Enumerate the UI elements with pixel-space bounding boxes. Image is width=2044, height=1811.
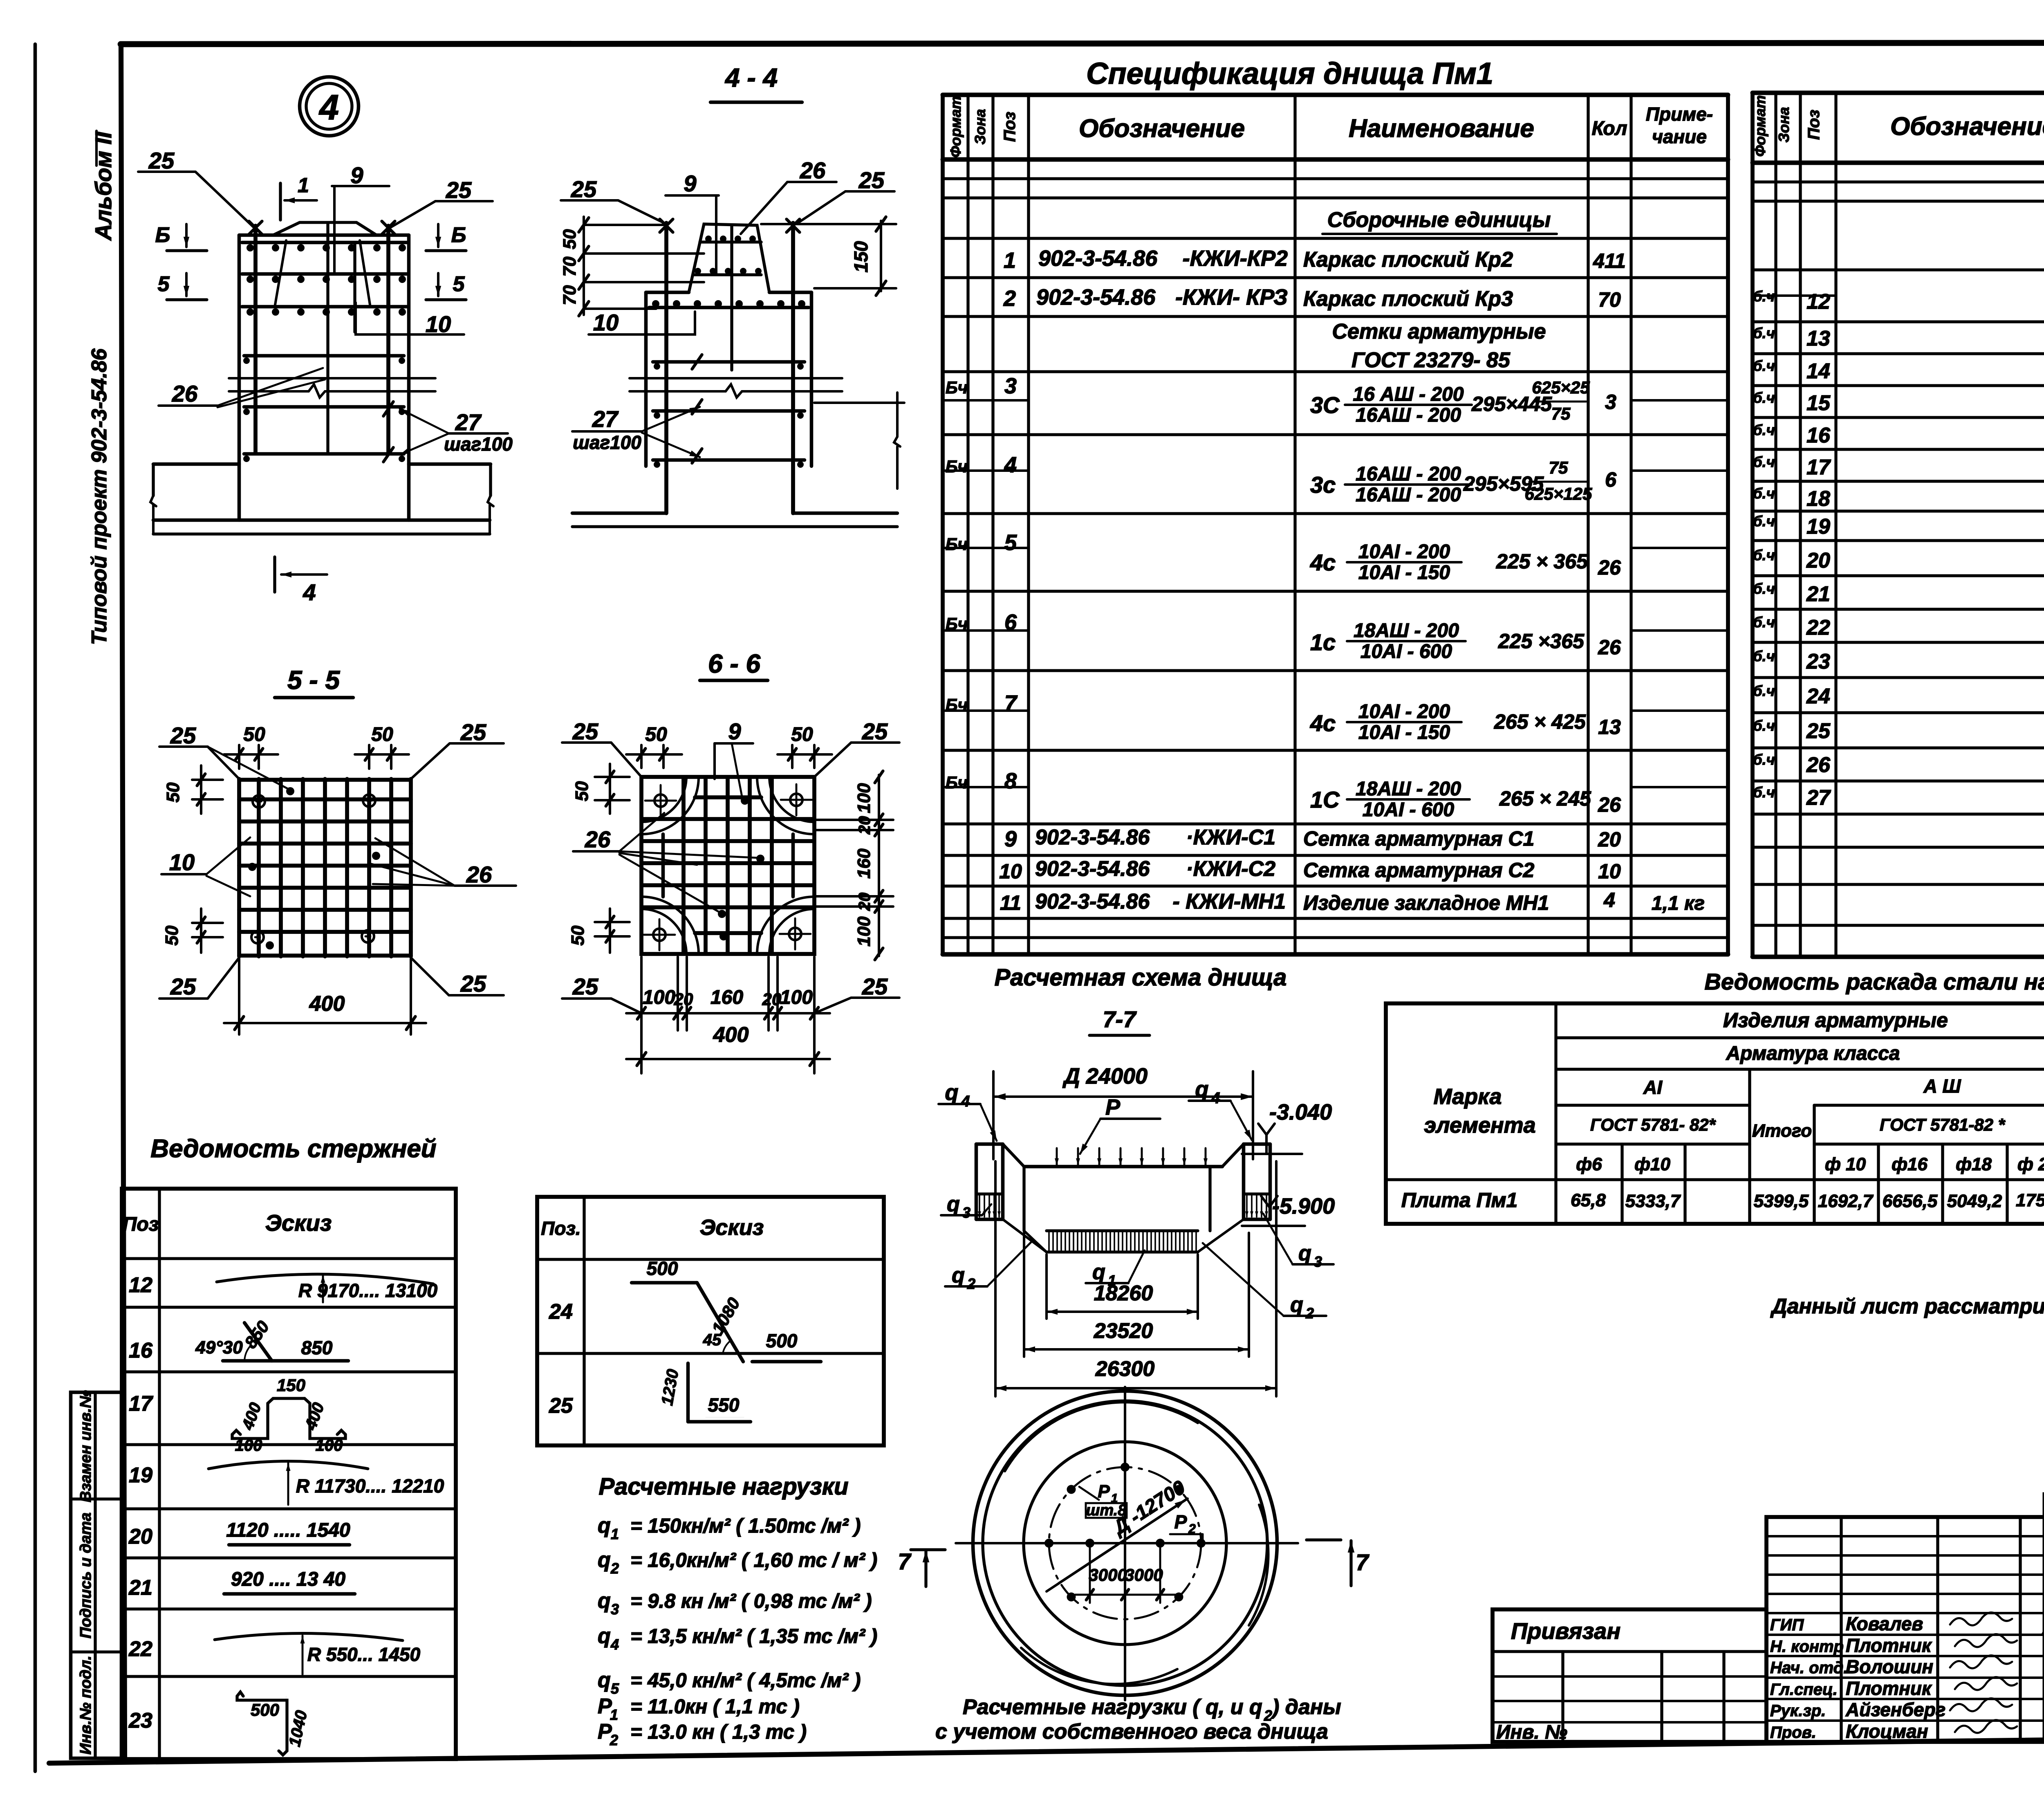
circular plan: outer circle — [973, 1391, 1277, 1695]
svg-text:Взамен инв.№: Взамен инв.№ — [77, 1390, 94, 1502]
svg-text:б.ч: б.ч — [1753, 513, 1775, 530]
svg-text:ГОСТ 5781- 82*: ГОСТ 5781- 82* — [1590, 1115, 1716, 1134]
svg-text:ф18: ф18 — [1956, 1154, 1992, 1174]
svg-text:25: 25 — [858, 167, 885, 193]
svg-text:25: 25 — [1806, 719, 1831, 743]
svg-text:65,8: 65,8 — [1571, 1190, 1606, 1210]
svg-text:24: 24 — [549, 1300, 573, 1324]
svg-text:Данный лист рассматривать сов: Данный лист рассматривать совместно с ли… — [1770, 1295, 2044, 1318]
svg-text:5: 5 — [453, 272, 465, 296]
svg-text:8: 8 — [1004, 769, 1017, 793]
svg-text:12: 12 — [1806, 290, 1830, 314]
svg-text:Приме-: Приме- — [1646, 103, 1713, 125]
svg-text:Альбом II: Альбом II — [90, 131, 116, 241]
grid 6-6: inner short verticals — [661, 834, 665, 897]
svg-text:Кол: Кол — [1592, 118, 1627, 139]
svg-text:22: 22 — [1806, 616, 1830, 640]
svg-text:50: 50 — [162, 925, 182, 945]
svg-text:20: 20 — [856, 893, 874, 911]
svg-text:Сетка арматурная С1: Сетка арматурная С1 — [1303, 827, 1534, 850]
svg-text:20: 20 — [674, 990, 693, 1009]
svg-text:Эскиз: Эскиз — [265, 1210, 332, 1236]
svg-text:5: 5 — [1004, 530, 1017, 555]
grid 5-5: corner circles — [253, 795, 265, 808]
svg-text:R 550... 1450: R 550... 1450 — [307, 1644, 421, 1665]
svg-text:6 - 6: 6 - 6 — [708, 649, 760, 678]
svg-text:Инв. №: Инв. № — [1496, 1721, 1567, 1743]
svg-text:7-7: 7-7 — [1103, 1006, 1137, 1032]
svg-text:26: 26 — [1598, 793, 1621, 816]
svg-text:25: 25 — [460, 971, 486, 996]
circular plan: second circle — [983, 1401, 1267, 1685]
schema 7-7: load P arrows — [1056, 1148, 1058, 1165]
svg-text:4: 4 — [1211, 1090, 1220, 1107]
svg-text:50: 50 — [560, 229, 580, 249]
svg-text:10АI - 600: 10АI - 600 — [1363, 799, 1454, 821]
svg-text:Плита Пм1: Плита Пм1 — [1401, 1189, 1518, 1212]
spec table right: sub-row line — [1753, 294, 1836, 297]
svg-text:150: 150 — [850, 241, 872, 272]
sheet frame: main border top line — [121, 43, 2044, 44]
svg-text:б.ч: б.ч — [1753, 614, 1775, 631]
svg-text:4 - 4: 4 - 4 — [724, 63, 778, 92]
section 4: vertical bar 25 right — [386, 226, 390, 453]
rod table: frame — [122, 1189, 456, 1759]
svg-text:Ведомость стержней: Ведомость стержней — [150, 1135, 436, 1163]
svg-text:б.ч: б.ч — [1753, 325, 1775, 341]
svg-text:25: 25 — [862, 974, 888, 999]
svg-text:18260: 18260 — [1094, 1281, 1153, 1305]
svg-text:26: 26 — [172, 381, 198, 406]
svg-text:q: q — [947, 1192, 960, 1216]
svg-text:3с: 3с — [1310, 472, 1336, 498]
svg-text:= 13,5 кн/м² ( 1,35 тс /м² ): = 13,5 кн/м² ( 1,35 тс /м² ) — [630, 1625, 877, 1647]
svg-text:Типовой проект 902-3-54.86: Типовой проект 902-3-54.86 — [87, 348, 111, 645]
circular plan: bolt circle dash-dot — [1049, 1467, 1201, 1619]
svg-text:Клоцман: Клоцман — [1846, 1721, 1928, 1742]
section 4: lower bar 1 — [244, 354, 404, 358]
svg-text:б.ч: б.ч — [1753, 717, 1775, 734]
svg-text:4: 4 — [961, 1093, 970, 1110]
section 4: bottom section mark 4 — [273, 557, 276, 592]
svg-text:Бч: Бч — [946, 378, 968, 397]
svg-text:9: 9 — [350, 162, 363, 188]
svg-text:1: 1 — [611, 1526, 619, 1542]
svg-text:Бч: Бч — [946, 773, 968, 792]
svg-text:7: 7 — [898, 1548, 912, 1574]
svg-text:9: 9 — [728, 718, 741, 744]
svg-text:Сетки арматурные: Сетки арматурные — [1332, 320, 1546, 343]
section 4: lower bar 2 — [244, 405, 404, 409]
svg-text:б.ч: б.ч — [1753, 547, 1775, 563]
svg-text:75: 75 — [1551, 404, 1571, 423]
svg-text:2: 2 — [967, 1275, 975, 1292]
svg-text:5049,2: 5049,2 — [1947, 1191, 2002, 1211]
section 4: top curb trapezoid — [273, 222, 377, 235]
svg-text:q: q — [598, 1624, 611, 1648]
schema 7-7: q3 hatch boxes — [979, 1196, 980, 1217]
spec table left: sub-row lines in narrow columns — [943, 399, 1029, 402]
svg-text:Д 24000: Д 24000 — [1062, 1064, 1148, 1088]
svg-text:Подпись и дата: Подпись и дата — [77, 1513, 94, 1638]
svg-text:3: 3 — [1314, 1253, 1322, 1270]
svg-text:q: q — [1092, 1260, 1105, 1284]
svg-text:4: 4 — [303, 579, 316, 605]
svg-text:27: 27 — [592, 406, 619, 432]
svg-text:·КЖИ-С2: ·КЖИ-С2 — [1186, 857, 1275, 881]
svg-text:Ковалев: Ковалев — [1846, 1613, 1923, 1634]
svg-text:6: 6 — [1004, 610, 1017, 635]
svg-text:Бч: Бч — [946, 614, 968, 633]
svg-text:16АШ - 200: 16АШ - 200 — [1356, 484, 1461, 506]
svg-text:10: 10 — [169, 849, 195, 875]
svg-text:3: 3 — [611, 1601, 619, 1618]
section 4: lower bar 3 — [244, 452, 404, 456]
svg-text:ф 20: ф 20 — [2017, 1154, 2044, 1174]
svg-text:Зона: Зона — [972, 109, 988, 145]
svg-text:Обозначение: Обозначение — [1079, 114, 1245, 143]
spec table right: horizontal lines — [1753, 91, 2044, 95]
svg-text:q: q — [1298, 1241, 1311, 1265]
svg-text:Изделие закладное МН1: Изделие закладное МН1 — [1303, 891, 1549, 914]
svg-text:21: 21 — [1806, 582, 1830, 606]
svg-text:Бч: Бч — [946, 457, 968, 476]
svg-text:5 - 5: 5 - 5 — [287, 665, 340, 695]
svg-text:Плотник: Плотник — [1846, 1635, 1932, 1656]
svg-text:Расчетные нагрузки: Расчетные нагрузки — [598, 1473, 848, 1500]
svg-text:2: 2 — [610, 1732, 618, 1748]
svg-text:Эскиз: Эскиз — [700, 1215, 764, 1240]
grid 5-5: mesh bars — [237, 779, 241, 956]
svg-text:550: 550 — [708, 1394, 740, 1416]
svg-text:7: 7 — [1356, 1549, 1369, 1575]
grid 6-6: outer square — [641, 777, 814, 954]
section 4-4: break lines — [630, 377, 842, 379]
svg-text:22: 22 — [128, 1637, 152, 1661]
svg-text:902-3-54.86: 902-3-54.86 — [1036, 285, 1156, 310]
svg-text:27: 27 — [1806, 786, 1831, 810]
svg-text:ф6: ф6 — [1576, 1154, 1602, 1174]
svg-text:3: 3 — [1605, 390, 1616, 413]
circular plan: center lines — [956, 1542, 1298, 1544]
svg-text:4: 4 — [610, 1636, 619, 1653]
svg-text:Бч: Бч — [946, 534, 968, 554]
grid 6-6: vertical bars — [681, 779, 686, 952]
svg-text:P: P — [1098, 1481, 1110, 1501]
svg-text:Поз: Поз — [1805, 110, 1823, 140]
svg-text:26: 26 — [1598, 636, 1621, 659]
svg-text:10АI - 150: 10АI - 150 — [1358, 562, 1450, 583]
sheet frame: main border bottom line — [49, 1734, 2044, 1763]
svg-text:-3.040: -3.040 — [1269, 1100, 1332, 1124]
svg-text:= 9.8 кн /м² ( 0,98 тс /м²: = 9.8 кн /м² ( 0,98 тс /м² ) — [630, 1590, 872, 1612]
svg-text:19: 19 — [1806, 515, 1830, 539]
svg-text:20: 20 — [762, 990, 782, 1009]
svg-text:q: q — [1195, 1077, 1209, 1102]
svg-text:ф16: ф16 — [1892, 1154, 1927, 1174]
steel table: horizontal lines — [1556, 1036, 2044, 1039]
svg-text:б.ч: б.ч — [1753, 751, 1775, 768]
svg-text:Формат: Формат — [947, 96, 964, 157]
svg-text:Поз: Поз — [123, 1214, 159, 1235]
svg-text:49°30: 49°30 — [195, 1337, 243, 1358]
svg-text:17: 17 — [129, 1392, 153, 1416]
svg-text:100: 100 — [854, 916, 874, 947]
section 4: break lines — [229, 377, 435, 379]
svg-text:400: 400 — [713, 1023, 749, 1047]
svg-text:17: 17 — [1806, 456, 1831, 479]
section 4-4: rebar row with dots — [649, 306, 809, 310]
svg-text:50: 50 — [645, 724, 667, 745]
svg-text:25: 25 — [460, 719, 486, 745]
svg-text:50: 50 — [791, 724, 813, 745]
svg-text:с учетом собственного веса: с учетом собственного веса днища — [935, 1720, 1328, 1744]
svg-text:50: 50 — [371, 724, 393, 745]
svg-text:500: 500 — [251, 1700, 279, 1719]
svg-text:Рук.зр.: Рук.зр. — [1770, 1702, 1826, 1720]
svg-text:2: 2 — [1305, 1305, 1314, 1322]
svg-text:50: 50 — [568, 925, 588, 945]
svg-text:9: 9 — [684, 171, 696, 196]
circular plan: diagonal dimension Д-12700 — [1059, 1500, 1186, 1583]
svg-text:150: 150 — [277, 1376, 305, 1395]
svg-text:16: 16 — [1806, 424, 1831, 447]
svg-text:160: 160 — [710, 987, 743, 1008]
svg-text:-5.900: -5.900 — [1272, 1194, 1335, 1219]
svg-text:1230: 1230 — [658, 1368, 682, 1407]
svg-text:45: 45 — [703, 1331, 722, 1349]
svg-text:10: 10 — [1598, 860, 1621, 883]
svg-text:500: 500 — [766, 1330, 798, 1351]
spec table right: verticals — [1750, 93, 1755, 957]
left margin stamp box — [71, 1392, 121, 1758]
svg-text:5333,7: 5333,7 — [1625, 1191, 1681, 1211]
svg-text:26300: 26300 — [1095, 1357, 1155, 1381]
section 4-4: dimension 150 right — [761, 223, 896, 225]
section 4-4: vertical bar left — [664, 223, 668, 513]
svg-text:70: 70 — [1598, 288, 1621, 311]
svg-text:50: 50 — [163, 782, 183, 802]
svg-text:Марка: Марка — [1434, 1084, 1502, 1109]
svg-text:q: q — [1290, 1293, 1303, 1317]
svg-text:3: 3 — [1004, 374, 1017, 398]
grid 6-6: bottom dimensions 100 20 160 20 100 — [640, 957, 643, 1030]
svg-text:Нач. отд.: Нач. отд. — [1770, 1659, 1848, 1677]
svg-text:б.ч: б.ч — [1753, 389, 1775, 406]
svg-text:26: 26 — [800, 157, 826, 183]
svg-text:25: 25 — [862, 718, 888, 744]
svg-text:6656,5: 6656,5 — [1883, 1191, 1938, 1211]
svg-text:11: 11 — [1000, 891, 1021, 914]
svg-text:Наименование: Наименование — [1349, 114, 1534, 143]
svg-text:20: 20 — [1598, 828, 1621, 851]
svg-text:Гл.спец.: Гл.спец. — [1770, 1681, 1838, 1699]
section mark circle 4 — [300, 77, 359, 136]
title block: signature squiggles — [1950, 1612, 2012, 1625]
grid 6-6: corner circles — [654, 794, 667, 807]
svg-text:175,6: 175,6 — [2016, 1190, 2044, 1210]
svg-text:Пров.: Пров. — [1770, 1723, 1816, 1741]
svg-text:q: q — [952, 1263, 965, 1287]
svg-text:902-3-54.86: 902-3-54.86 — [1035, 857, 1150, 881]
grid 6-6: corner arcs — [641, 777, 686, 822]
svg-text:б.ч: б.ч — [1753, 580, 1775, 597]
steel table: outer box — [1386, 1003, 2044, 1224]
svg-text:25: 25 — [549, 1394, 573, 1418]
svg-text:-КЖИ- КРЗ: -КЖИ- КРЗ — [1175, 285, 1288, 310]
svg-text:Сборочные единицы: Сборочные единицы — [1327, 208, 1551, 232]
svg-text:10АI - 600: 10АI - 600 — [1360, 641, 1452, 662]
svg-text:1040: 1040 — [286, 1709, 311, 1748]
svg-text:920 .... 13 40: 920 .... 13 40 — [231, 1569, 346, 1590]
svg-text:25: 25 — [170, 723, 196, 748]
svg-text:Арматура класса: Арматура класса — [1726, 1043, 1900, 1064]
svg-text:Расчетные нагрузки ( q,: Расчетные нагрузки ( q, и q — [963, 1695, 1262, 1719]
svg-text:10АI - 150: 10АI - 150 — [1358, 722, 1450, 743]
sketch table 24-25: frame — [537, 1197, 884, 1445]
section 4: wall outline — [239, 233, 409, 237]
svg-text:26: 26 — [1806, 753, 1831, 777]
svg-text:Зона: Зона — [1775, 107, 1792, 143]
svg-text:20: 20 — [128, 1525, 152, 1548]
svg-text:50: 50 — [572, 781, 592, 801]
svg-text:= 150кн/м² ( 1.50тс /м² ): = 150кн/м² ( 1.50тс /м² ) — [630, 1515, 861, 1537]
svg-text:14: 14 — [1806, 359, 1830, 383]
svg-text:R 11730.... 12210: R 11730.... 12210 — [296, 1475, 444, 1497]
section 4-4: шаг100 tick marks — [692, 355, 702, 369]
svg-text:Волошин: Волошин — [1846, 1656, 1933, 1677]
svg-text:70: 70 — [560, 256, 580, 276]
svg-text:100: 100 — [780, 987, 813, 1008]
svg-text:шт.8: шт.8 — [1086, 1502, 1127, 1519]
section 4-4: wall step outline — [646, 291, 689, 294]
svg-text:= 16,0кн/м² ( 1,60 тс / м² ): = 16,0кн/м² ( 1,60 тс / м² ) — [630, 1549, 877, 1571]
svg-text:400: 400 — [309, 992, 345, 1016]
svg-text:24: 24 — [1806, 684, 1830, 708]
svg-text:Поз: Поз — [1001, 112, 1019, 142]
spec table left: outer and verticals — [941, 95, 945, 954]
circular plan: inner solid circle — [1024, 1442, 1226, 1645]
svg-text:625×125: 625×125 — [1525, 484, 1592, 503]
section 4: rebar row 2 with dots — [242, 272, 407, 276]
spec table left: horizontal lines — [943, 93, 1728, 97]
grid 6-6: short top bars — [695, 795, 761, 799]
section 4: vertical bar center — [326, 223, 329, 452]
svg-text:16 АШ - 200: 16 АШ - 200 — [1353, 384, 1464, 405]
svg-text:7: 7 — [1004, 691, 1018, 716]
svg-text:2: 2 — [610, 1560, 619, 1577]
section 4: foundation slab — [153, 462, 239, 466]
svg-text:4: 4 — [318, 88, 339, 127]
svg-text:26: 26 — [585, 826, 611, 852]
svg-text:q: q — [598, 1589, 611, 1613]
svg-text:= 45,0 кн/м² ( 4,5тс /м² ): = 45,0 кн/м² ( 4,5тс /м² ) — [630, 1670, 861, 1692]
svg-text:= 11.0кн ( 1,1 тс ): = 11.0кн ( 1,1 тс ) — [630, 1696, 800, 1718]
svg-text:160: 160 — [854, 848, 874, 879]
svg-text:23: 23 — [1806, 650, 1830, 673]
section 4-4: right lower extension with break — [814, 402, 904, 404]
grid 6-6: horizontal bars — [643, 817, 813, 821]
svg-text:ГОСТ 23279- 85: ГОСТ 23279- 85 — [1351, 348, 1511, 372]
svg-text:3: 3 — [962, 1204, 970, 1221]
section 4-4: lower bar 1 — [653, 360, 805, 364]
svg-text:5: 5 — [611, 1680, 619, 1697]
svg-text:10АI - 200: 10АI - 200 — [1358, 541, 1450, 563]
section 4-4: vertical bar right — [791, 223, 795, 513]
svg-text:Б: Б — [451, 223, 466, 247]
svg-text:100: 100 — [854, 783, 874, 813]
svg-text:100: 100 — [316, 1436, 343, 1454]
svg-text:13: 13 — [1806, 327, 1830, 350]
svg-text:100: 100 — [235, 1436, 262, 1454]
svg-text:265 × 245: 265 × 245 — [1499, 787, 1591, 810]
svg-text:1: 1 — [1004, 248, 1016, 273]
section 4-4: left dimension stack 70 70 50 — [583, 217, 585, 315]
svg-text:- КЖИ-МН1: - КЖИ-МН1 — [1173, 890, 1286, 913]
svg-text:P: P — [1105, 1095, 1121, 1120]
svg-text:75: 75 — [1549, 458, 1568, 477]
svg-text:Ведомость раскада стали: Ведомость раскада стали на днище,кг — [1705, 969, 2044, 994]
svg-text:АI: АI — [1643, 1077, 1663, 1098]
svg-text:10: 10 — [999, 860, 1022, 883]
svg-text:225 × 365: 225 × 365 — [1496, 550, 1588, 573]
svg-text:265 × 425: 265 × 425 — [1494, 710, 1586, 733]
svg-text:20: 20 — [856, 816, 874, 835]
svg-text:б.ч: б.ч — [1753, 357, 1775, 374]
section 4-4: foundation slab — [572, 512, 666, 515]
svg-text:23: 23 — [128, 1709, 152, 1732]
circular plan: broken arcs — [1005, 1402, 1198, 1471]
svg-text:25: 25 — [170, 974, 196, 999]
svg-text:225 ×365: 225 ×365 — [1498, 630, 1585, 653]
svg-text:Плотник: Плотник — [1846, 1678, 1932, 1699]
svg-text:26: 26 — [466, 862, 492, 887]
svg-text:50: 50 — [243, 724, 265, 745]
section 4: rebar row 1 with dots — [242, 241, 407, 245]
svg-text:1: 1 — [298, 174, 309, 197]
svg-text:q: q — [598, 1668, 611, 1692]
svg-text:10: 10 — [426, 311, 451, 337]
schema 7-7: end diagonals — [1003, 1219, 1047, 1252]
svg-text:б.ч: б.ч — [1753, 682, 1775, 699]
grid 6-6: right rotated dimensions 100 20 160 20 100 — [814, 819, 893, 821]
svg-text:б.ч: б.ч — [1753, 485, 1775, 502]
svg-text:26: 26 — [1598, 556, 1621, 579]
svg-text:б.ч: б.ч — [1753, 422, 1775, 438]
svg-text:А Ш: А Ш — [1923, 1075, 1961, 1097]
svg-text:Б: Б — [155, 223, 170, 247]
svg-text:19: 19 — [129, 1463, 152, 1487]
svg-text:3С: 3С — [1310, 392, 1340, 418]
svg-text:2: 2 — [1003, 286, 1016, 311]
svg-text:18: 18 — [1806, 487, 1830, 511]
svg-text:10: 10 — [593, 310, 619, 335]
svg-text:б.ч: б.ч — [1753, 648, 1775, 664]
svg-text:9: 9 — [1004, 827, 1017, 851]
svg-text:1,1 кг: 1,1 кг — [1652, 893, 1705, 914]
svg-text:500: 500 — [647, 1258, 678, 1279]
svg-text:400: 400 — [301, 1400, 328, 1433]
svg-text:18АШ - 200: 18АШ - 200 — [1356, 778, 1461, 800]
svg-text:Сетка арматурная С2: Сетка арматурная С2 — [1303, 859, 1535, 882]
schema 7-7: right wall of section — [1242, 1144, 1246, 1219]
svg-text:4с: 4с — [1310, 710, 1336, 736]
section 4-4: curb trapezoid — [689, 224, 769, 292]
svg-text:850: 850 — [301, 1337, 333, 1358]
svg-text:q: q — [945, 1080, 959, 1105]
svg-text:Поз.: Поз. — [541, 1218, 580, 1239]
svg-text:625×25: 625×25 — [1532, 378, 1590, 397]
